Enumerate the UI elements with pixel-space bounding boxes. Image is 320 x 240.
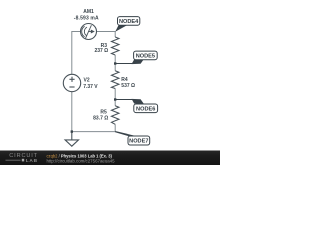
node NODE6 flag [115,99,157,113]
svg-text:NODE4: NODE4 [119,19,139,25]
svg-text:NODE5: NODE5 [136,53,155,59]
voltage source V2 [63,74,80,91]
svg-text:NODE7: NODE7 [129,139,148,145]
resistor R5 [112,106,119,125]
wire left vertical (corner to V2 top) [71,31,73,74]
wire R4 bottom to R5 top [114,89,116,106]
wire R5 bottom to corner [114,124,116,132]
svg-text:http://circuitlab.com/c27567ae: http://circuitlab.com/c27567aeua45 [47,159,116,164]
svg-text:7.37 V: 7.37 V [83,84,98,90]
svg-text:NODE6: NODE6 [136,106,155,112]
svg-text:537 Ω: 537 Ω [121,83,135,89]
svg-text:237 Ω: 237 Ω [94,48,108,54]
wire bottom rail [71,131,115,133]
resistor R3 [112,37,119,55]
resistor R4 [112,71,119,89]
junction node NODE5 [114,62,116,64]
node NODE5 flag [115,51,157,64]
svg-text:-8.593 mA: -8.593 mA [74,15,99,21]
ground [65,132,78,147]
ammeter AM1 [81,24,97,40]
svg-text:V2: V2 [84,77,90,83]
wire R3 bottom to R4 top [114,55,116,71]
ammeter arrow head [91,30,95,34]
junction node NODE6 [114,98,116,100]
junction node at V2 bottom rail [71,130,73,132]
wire right rail R3 top [114,31,116,37]
svg-text:AM1: AM1 [83,9,94,15]
svg-text:83.7 Ω: 83.7 Ω [93,116,108,122]
footer bar [0,151,220,166]
node NODE7 flag [115,131,150,145]
wire top-left horizontal [72,31,81,33]
node NODE4 flag [115,17,140,32]
wire ammeter right to corner [97,31,116,33]
wire V2 bottom to bottom rail [71,92,73,132]
svg-text:LAB: LAB [26,158,38,164]
